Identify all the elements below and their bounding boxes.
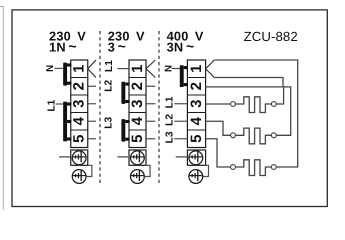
wire stub terminal 5 (column 1) [88, 138, 96, 140]
heating element EL1 connector circle right [271, 102, 276, 107]
heating element EL1 connector circle left [231, 102, 236, 107]
dashed separator 2 [158, 31, 160, 186]
heating element EL3 connector circle left [231, 165, 236, 170]
jumper link L1 terminals 3-4-5 (column 1) [63, 102, 71, 142]
svg-text:L2: L2 [164, 114, 175, 126]
svg-text:L1: L1 [104, 60, 115, 72]
heating element EL2 connector circle right [271, 133, 276, 138]
earth circle 2 link wire (column 2) [144, 165, 150, 176]
PE supply wire (column 2) [117, 156, 129, 158]
earth terminal box (column 3) [187, 150, 205, 165]
svg-text:4: 4 [71, 116, 88, 125]
wire stub terminal 2 (column 2) [146, 85, 155, 87]
svg-text:3: 3 [129, 100, 146, 108]
earth terminal box (column 2) [129, 150, 146, 165]
svg-text:L1: L1 [47, 99, 58, 111]
svg-text:5: 5 [188, 135, 205, 143]
svg-text:2: 2 [129, 82, 146, 90]
terminal block column 1 (terminals 1-5) [71, 60, 88, 148]
protective earth symbol circle 1 (column 3) [189, 151, 203, 165]
wire terminal 5 to heater EL3 left [206, 139, 231, 167]
svg-text:1: 1 [188, 65, 205, 73]
jumper link L2 terminals 2-3 (column 2) [121, 82, 129, 104]
wire L1 to terminal 3 [174, 103, 187, 105]
heating element EL3 resistive meander [235, 160, 271, 176]
svg-text:L2: L2 [104, 80, 115, 92]
wire N to jumper column 1 [55, 67, 64, 69]
svg-text:L1: L1 [164, 96, 175, 108]
wire terminal 1 top branch to heater EL3 right [214, 60, 297, 167]
header 400 V 3N~ [167, 29, 204, 55]
wire stub terminal 2 (column 1) [88, 85, 96, 87]
svg-text:4: 4 [129, 116, 146, 125]
dashed separator 1 [99, 31, 101, 186]
svg-text:2: 2 [188, 82, 205, 90]
wire terminal 1 lower branch down to node A [214, 78, 283, 87]
terminal 1 fork wires (column 3) [206, 60, 215, 78]
header 230 V 1N~ [49, 29, 86, 55]
svg-text:3N~: 3N~ [167, 38, 195, 55]
earth terminal box (column 1) [71, 150, 88, 165]
svg-text:N: N [45, 65, 56, 72]
terminal block column 2 (terminals 1-5) [129, 60, 146, 148]
diagram frame [12, 10, 327, 207]
wire stub terminal 5 (column 2) [146, 138, 155, 140]
heating element EL2 connector circle left [231, 133, 236, 138]
svg-text:1: 1 [129, 65, 146, 73]
heating element EL2 resistive meander [235, 128, 271, 144]
wire terminal 4 to heater EL2 left [206, 121, 231, 135]
svg-text:5: 5 [71, 135, 88, 143]
svg-text:2: 2 [71, 82, 88, 90]
protective earth symbol circle 2 (column 1) [72, 170, 86, 184]
protective earth symbol circle 2 (column 2) [131, 170, 145, 184]
wire terminal 2 through node A to heater EL2 right [206, 87, 291, 135]
header 230 V 3~ [108, 29, 145, 55]
svg-text:L3: L3 [104, 117, 115, 129]
jumper link N terminals 1-2 (column 1) [63, 63, 71, 86]
earth circle 2 link wire (column 3) [203, 165, 209, 176]
wire terminal 3 to heater EL1 left [206, 103, 231, 105]
terminal block column 3 (terminals 1-5) [187, 60, 205, 148]
wire L1 to jumper column 1 [56, 103, 63, 105]
heating element EL1 resistive meander [235, 97, 271, 113]
svg-text:ZCU-882: ZCU-882 [244, 29, 298, 44]
terminal 1 fork wires (column 2) [146, 60, 155, 78]
svg-text:1N~: 1N~ [49, 38, 77, 55]
jumper link L3 terminals 4-5 (column 2) [121, 119, 129, 142]
wire stub terminal 3 (column 1) [88, 103, 96, 105]
svg-text:3: 3 [71, 100, 88, 108]
wire N to jumper column 3 [172, 68, 180, 70]
heating element EL3 connector circle right [271, 165, 276, 170]
wire stub terminal 4 (column 2) [146, 120, 155, 122]
earth circle 2 link wire (column 1) [86, 165, 92, 176]
svg-text:4: 4 [188, 116, 205, 125]
svg-text:5: 5 [129, 135, 146, 143]
jumper link N terminals 1-2 (column 3) [180, 65, 188, 87]
protective earth symbol circle 2 (column 3) [189, 170, 203, 184]
svg-text:L3: L3 [164, 131, 175, 143]
PE supply wire (column 3) [176, 156, 188, 158]
PE supply wire (column 1) [59, 156, 71, 158]
wire heater EL1 right riser to node A [276, 88, 283, 105]
wire L3 to terminal 5 [174, 138, 187, 140]
svg-text:3: 3 [188, 100, 205, 108]
page column edge line [0, 7, 3, 211]
wire L1 to terminal 1 column 2 [117, 68, 129, 70]
svg-text:3~: 3~ [108, 38, 126, 55]
protective earth symbol circle 1 (column 1) [72, 151, 86, 165]
svg-text:1: 1 [71, 65, 88, 73]
wire L2 to terminal 4 [174, 120, 187, 122]
wire stub terminal 4 (column 1) [88, 120, 96, 122]
terminal 1 fork wires (column 1) [88, 60, 96, 78]
protective earth symbol circle 1 (column 2) [131, 151, 145, 165]
wire stub terminal 3 (column 2) [146, 103, 155, 105]
